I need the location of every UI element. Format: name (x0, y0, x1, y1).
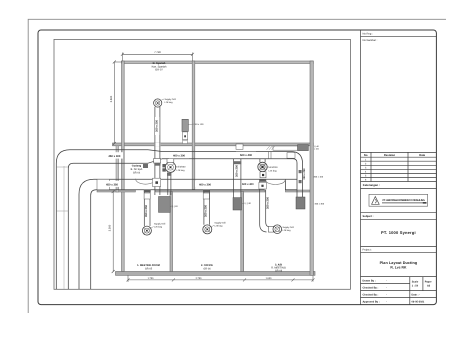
room text: bottom room2 name (201, 264, 213, 271)
svg-text:1.900: 1.900 (266, 277, 272, 280)
row line under No Reg (361, 35, 437, 37)
label: VAV leader (189, 123, 205, 126)
svg-text:L25 bag: L25 bag (269, 169, 278, 172)
svg-text:Scale: Scale (412, 281, 419, 284)
equipment: VAV grey box in top-left room (182, 119, 188, 131)
svg-text:GR-06: GR-06 (203, 268, 211, 271)
duct: top-left room riser (from supply grill down across ducts) (154, 143, 160, 147)
sign rows (361, 283, 410, 285)
label: G4 (314, 145, 320, 151)
grille: G4 dark box on top rooms bottom wall (298, 145, 309, 151)
svg-text:350 x 250: 350 x 250 (145, 205, 148, 217)
project label bottom (361, 251, 437, 253)
svg-text:500 x 400: 500 x 400 (240, 154, 252, 157)
label: G1 leader (171, 205, 179, 208)
svg-text:5.600: 5.600 (110, 95, 113, 102)
revision table columns (370, 152, 372, 181)
svg-text:2.750: 2.750 (196, 277, 202, 280)
logo mark (triangle A) (372, 197, 380, 205)
svg-text:Revision: Revision (384, 154, 396, 157)
damper box on room3 riser (259, 182, 266, 189)
label: fitting 1 (176, 165, 187, 172)
label: top-left grill (162, 98, 177, 104)
flange on top-room riser at band crossing (154, 163, 160, 166)
diffuser: room1 supply grill (142, 226, 151, 235)
svg-text:GR-05: GR-05 (145, 268, 153, 271)
svg-text:No: No (364, 154, 368, 157)
svg-text:GR-07: GR-07 (155, 69, 163, 72)
wall: divider room2/room3 (241, 192, 244, 272)
subject cell bottom (361, 245, 437, 247)
label: G2 leader (242, 202, 252, 205)
subject label bottom (361, 218, 437, 220)
svg-text:Subject :: Subject : (363, 215, 374, 218)
revision table top (361, 151, 437, 153)
svg-text:Checked By :: Checked By : (363, 287, 379, 290)
logo address line (382, 201, 427, 204)
duct: riser from upper duct down to G2 (234, 159, 241, 198)
sign columns (409, 277, 411, 305)
svg-text:06-05-2021: 06-05-2021 (412, 301, 425, 304)
svg-text:350 x 250: 350 x 250 (204, 205, 207, 217)
dimension: bottom chain (127, 275, 315, 282)
duct: upper main duct right section (162, 152, 293, 159)
duct: left riser B (to lower main duct) with elbow (79, 179, 297, 289)
svg-text:400 x 300: 400 x 300 (199, 183, 211, 186)
grille: G1 dark box room1 top (159, 197, 171, 213)
junction mark near room1 riser top (143, 164, 148, 168)
inner sheet border (38, 30, 436, 305)
duct: room1 riser (144, 190, 150, 226)
title block left edge (360, 30, 362, 305)
svg-text:Approved By :: Approved By : (363, 301, 380, 304)
wall: divider between top rooms (192, 61, 195, 190)
revision rows (361, 160, 437, 162)
duct: damper marks on right riser (299, 170, 302, 173)
svg-text:(-) 40: (-) 40 (246, 202, 252, 205)
svg-text:Supply Grill: Supply Grill (154, 223, 166, 226)
duct B joint box after elbow (97, 179, 109, 190)
project cell bottom (361, 276, 437, 278)
grille: W1 white box on top rooms bottom wall (236, 144, 243, 149)
svg-text:Project :: Project : (363, 249, 373, 252)
room text: mid-left store room name (131, 164, 143, 174)
label: lower duct 400x300 (195, 181, 215, 187)
svg-text:Keterangan :: Keterangan : (363, 183, 380, 187)
svg-text:Plan Layout Ducting: Plan Layout Ducting (380, 261, 418, 265)
revision row numbers (365, 158, 367, 181)
label: lower duct 450x350 (104, 181, 121, 187)
logo box (369, 194, 428, 206)
svg-text:Date: Date (419, 154, 425, 157)
fitting 2 lower damper box (260, 172, 266, 178)
fitting: mid round take-off 1 (165, 162, 175, 172)
door swing arcs (door 2 in mid wall) (265, 179, 285, 184)
room text: bottom room1 name (137, 264, 160, 271)
diffuser: room2 supply grill (203, 225, 212, 234)
wall: divider room1/room2 (170, 192, 173, 272)
label: room1 grill (151, 223, 166, 229)
svg-text:1 : 50: 1 : 50 (412, 285, 419, 288)
duct: room2 riser (204, 190, 210, 225)
damper box at riser crossing of lower duct (153, 178, 161, 186)
flange on room2 riser (203, 190, 210, 193)
svg-text:R. Lvs RK: R. Lvs RK (390, 265, 407, 269)
wall: top rooms top wall (122, 61, 314, 64)
svg-text:GR-04: GR-04 (133, 171, 141, 174)
grille: return air white box on wall (273, 146, 298, 150)
scale cell (412, 281, 432, 304)
dimension: top width 7.728 (121, 53, 194, 62)
label: upper duct 450x400 (106, 152, 123, 158)
wall: shaft wall left of rooms column (116, 146, 119, 192)
equipment: stub box below damper (183, 140, 188, 143)
equipment: damper box below VAV (183, 132, 188, 140)
label: room2 grill (211, 221, 226, 227)
svg-text:L25 bag: L25 bag (165, 101, 174, 104)
label: fitting 2 (268, 166, 279, 172)
svg-text:300 x 100: 300 x 100 (314, 176, 324, 179)
svg-text:L25 bag: L25 bag (177, 169, 186, 172)
svg-text:Supply Grill: Supply Grill (214, 221, 226, 224)
door swing arcs (door 1 in mid wall) (135, 179, 155, 185)
label: lower duct 500x400 (240, 180, 255, 186)
svg-text:L25 bag: L25 bag (214, 225, 223, 228)
duct: lower main duct right end step (285, 179, 297, 190)
fitting box before room3 grill (268, 226, 273, 232)
dimension: bottom-left room height 3.500 (112, 190, 115, 273)
svg-text:Drawn By :: Drawn By : (363, 280, 376, 283)
wall: mid corridor wall (under lower duct) (97, 190, 135, 192)
svg-text:500 x 400: 500 x 400 (242, 183, 254, 186)
svg-text:PT. 1000 Synergi: PT. 1000 Synergi (381, 230, 416, 235)
duct: elbow turning vanes box (287, 153, 295, 159)
svg-text:Date : -: Date : - (412, 294, 421, 297)
damper box on top-room riser at band crossing (154, 159, 161, 164)
flange on room1 riser (144, 190, 151, 193)
svg-text:350 x 250: 350 x 250 (156, 120, 159, 132)
wall: top rooms bottom wall (113, 143, 314, 146)
damper box on room1 riser (144, 193, 150, 199)
label: room3 grill (283, 226, 295, 232)
svg-text:Supply Grill: Supply Grill (283, 226, 295, 229)
svg-text:300 x 250: 300 x 250 (303, 168, 306, 180)
duct: left riser A (to upper main duct) with elbow (56, 150, 148, 289)
keterangan row bottom (361, 188, 437, 190)
diffuser: room3 supply grill (273, 225, 282, 234)
logo cell bottom (361, 212, 437, 214)
svg-text:Supply Grill: Supply Grill (165, 98, 177, 101)
label: upper duct 500x400 (236, 152, 256, 158)
fitting 1 flanges (162, 164, 165, 167)
flange: room3 riser tap into duct (259, 179, 266, 181)
room text: bottom room3 name (271, 263, 286, 272)
duct: upper main duct taper (148, 150, 162, 163)
duct A mid joint line (63, 166, 65, 289)
duct: upper duct right elbow down to riser (291, 152, 303, 198)
svg-text:Paper: Paper (425, 281, 432, 284)
revision header bottom (361, 156, 437, 158)
outer sheet border (partial: top + left) (28, 19, 446, 313)
svg-text:No Gambar :: No Gambar : (363, 39, 378, 42)
flange on G2 riser below upper duct (233, 161, 241, 164)
svg-text:40 x 100: 40 x 100 (195, 123, 204, 126)
svg-text:Grill Ø200: Grill Ø200 (268, 166, 279, 169)
svg-text:400 x 300: 400 x 300 (173, 155, 185, 158)
fitting 2 stubs (260, 159, 265, 162)
wall: building right wall (310, 61, 313, 275)
svg-text:400 x 300: 400 x 300 (315, 202, 325, 205)
svg-text:Grill Ø200: Grill Ø200 (176, 165, 187, 168)
svg-text:3.500: 3.500 (109, 224, 112, 231)
svg-text:1.750: 1.750 (148, 277, 154, 280)
room text: top-left room name (152, 62, 167, 72)
label: upper duct 400x300 (169, 152, 189, 158)
joint ticks on upper duct right of fitting 2 (268, 152, 270, 159)
fitting 1 stubs (168, 172, 171, 195)
svg-text:No Reg :: No Reg : (363, 33, 374, 36)
svg-text:L25 bag: L25 bag (283, 229, 292, 232)
wall: left rooms column wall (continuous) (122, 61, 125, 272)
svg-text:450 x 350: 450 x 350 (106, 183, 118, 186)
sign rows text (363, 280, 388, 304)
label: riser size 350x250 (rotated, top room) (155, 117, 160, 135)
damper box on room2 riser (203, 193, 209, 199)
svg-text:L25 bag: L25 bag (154, 226, 163, 229)
plan frame (building outline frame) (54, 39, 350, 289)
transition hatch left of return box (267, 146, 276, 150)
svg-text:350 x 250: 350 x 250 (267, 197, 270, 209)
svg-text:450 x 400: 450 x 400 (108, 155, 120, 158)
svg-text:(-) 40: (-) 40 (172, 205, 178, 208)
wall: bottom rooms bottom wall (116, 272, 316, 276)
grille: G2 dark box room3 top-left (233, 198, 242, 210)
svg-text:GR-08: GR-08 (275, 270, 283, 273)
diffuser: top-left room supply grill (154, 99, 162, 107)
svg-text:PT. ARKITAMA INTERINDO CONSULI: PT. ARKITAMA INTERINDO CONSULING (383, 199, 425, 202)
duct: room3 riser with elbow to grill (260, 181, 269, 232)
dimension: left height 5.600 (113, 61, 123, 146)
fitting: mid round take-off 2 (258, 162, 267, 171)
grille: G3 dark box on right riser (296, 197, 305, 209)
svg-text:7.728: 7.728 (154, 51, 161, 54)
svg-text:Checked By :: Checked By : (363, 294, 379, 297)
svg-text:350 x 250: 350 x 250 (235, 165, 238, 177)
